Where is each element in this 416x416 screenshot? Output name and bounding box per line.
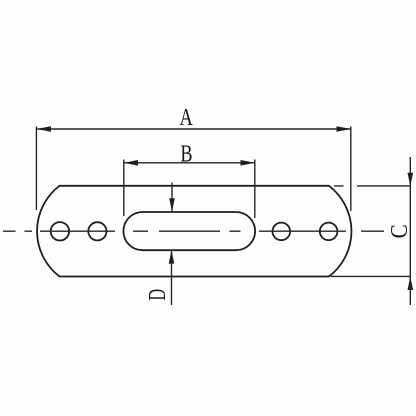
- arrowhead B left: [124, 160, 138, 166]
- dimension D upper line: [171, 183, 173, 212]
- dimension C extension line top: [334, 185, 410, 187]
- dimension B line: [124, 162, 255, 164]
- arrowhead A left: [37, 126, 51, 132]
- hole 2: [88, 222, 106, 240]
- center line: [3, 230, 384, 232]
- hole 3: [273, 223, 291, 241]
- arrowhead B right: [241, 160, 255, 166]
- dimension D lower line: [171, 251, 173, 306]
- arrowhead C bottom: [408, 277, 414, 290]
- dimension A extension line right: [350, 127, 352, 212]
- dimension A line: [37, 128, 350, 130]
- hole 4: [320, 223, 338, 241]
- dimension C line: [409, 157, 411, 305]
- svg-text:B: B: [180, 140, 192, 167]
- svg-text:D: D: [145, 289, 171, 301]
- dimension B extension line right: [254, 160, 256, 219]
- hole 1: [51, 222, 69, 240]
- arrowhead A right: [337, 126, 351, 132]
- arrowhead C top: [408, 173, 414, 186]
- arrowhead D top: [169, 198, 175, 211]
- svg-text:A: A: [180, 104, 194, 131]
- slot: [123, 212, 255, 250]
- svg-text:C: C: [386, 224, 413, 238]
- dimension B extension line left: [123, 160, 125, 217]
- dimension A extension line left: [35, 127, 37, 211]
- dimension C extension line bottom: [331, 275, 410, 277]
- arrowhead D bottom: [169, 250, 175, 263]
- plate outline: [37, 186, 351, 277]
